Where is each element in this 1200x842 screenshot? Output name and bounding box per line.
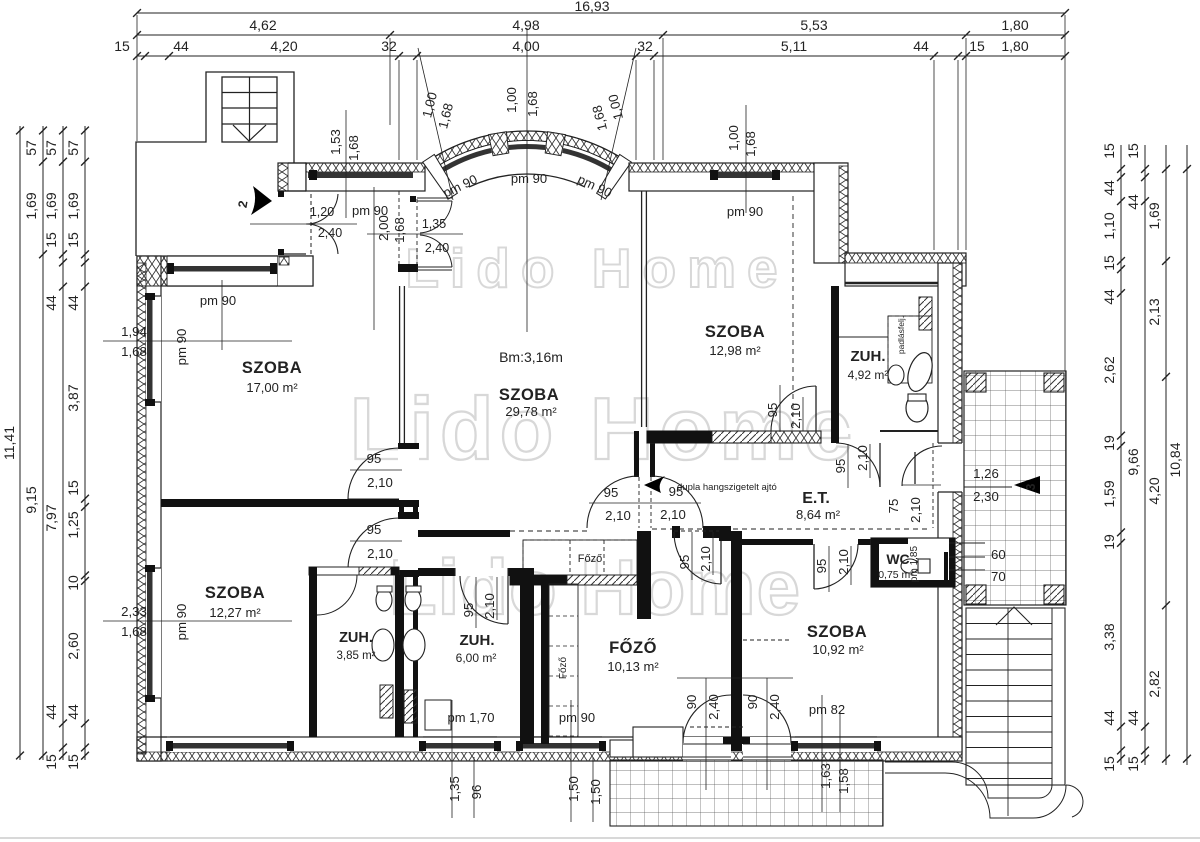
svg-text:9,66: 9,66 bbox=[1125, 448, 1141, 475]
window glazing NW (pm 90) bbox=[167, 256, 277, 286]
svg-text:70: 70 bbox=[991, 569, 1006, 584]
svg-text:15: 15 bbox=[969, 38, 985, 54]
arc bay glazing segments bbox=[439, 150, 491, 172]
svg-text:2,10: 2,10 bbox=[836, 549, 851, 575]
svg-text:15: 15 bbox=[1101, 756, 1117, 772]
svg-text:2,10: 2,10 bbox=[660, 507, 686, 522]
wall segment above double door bbox=[634, 431, 639, 477]
svg-text:2,10: 2,10 bbox=[482, 593, 497, 619]
arc radial dim lines bbox=[526, 28, 528, 332]
south window SZOBA 12,27 pm 90 bbox=[170, 737, 290, 752]
east wall terrace door opening bbox=[937, 443, 963, 492]
right dimension chain 3 bbox=[1165, 145, 1167, 765]
terrace steps by WC bbox=[949, 542, 985, 544]
svg-text:1,00: 1,00 bbox=[726, 125, 741, 151]
NW corner hatch block bbox=[137, 256, 167, 286]
svg-text:32: 32 bbox=[637, 38, 653, 54]
ZUH 3,85 fixtures bbox=[376, 589, 392, 611]
svg-text:11,41: 11,41 bbox=[1, 426, 17, 460]
wall: top band segment B with window pm 90 bbox=[629, 163, 847, 191]
svg-text:2,00: 2,00 bbox=[376, 215, 391, 241]
svg-text:29,78 m²: 29,78 m² bbox=[505, 404, 557, 419]
bottom dim FOZO window 1,50 / 1,50 bbox=[570, 700, 572, 822]
svg-text:pm 90: pm 90 bbox=[511, 171, 547, 186]
svg-text:2,10: 2,10 bbox=[908, 497, 923, 523]
dashed line SZOBA 12,98 bbox=[792, 196, 794, 428]
svg-text:1,80: 1,80 bbox=[1001, 17, 1028, 33]
svg-text:1,25: 1,25 bbox=[65, 511, 81, 538]
svg-text:1,69: 1,69 bbox=[1146, 202, 1162, 229]
double soundproof door (dupla hangszigetelt ajto) bbox=[587, 476, 639, 528]
svg-text:Lido Home: Lido Home bbox=[405, 237, 788, 299]
left dimension chain C bbox=[62, 126, 64, 760]
svg-text:ZUH.: ZUH. bbox=[851, 348, 886, 365]
wall: porch east wall / entry bbox=[278, 163, 306, 191]
svg-text:1,94: 1,94 bbox=[121, 324, 147, 339]
wall: partition SZOBA29 east (thin) bbox=[641, 191, 643, 427]
svg-text:2,62: 2,62 bbox=[1101, 356, 1117, 383]
svg-text:1,59: 1,59 bbox=[1101, 480, 1117, 507]
svg-text:2,10: 2,10 bbox=[855, 445, 870, 471]
svg-text:19: 19 bbox=[1101, 534, 1117, 550]
svg-text:44: 44 bbox=[913, 38, 929, 54]
svg-text:pm 90: pm 90 bbox=[174, 329, 189, 366]
svg-text:95: 95 bbox=[604, 485, 619, 500]
wall: ZUH3,85 west wall bbox=[309, 575, 317, 737]
svg-text:96: 96 bbox=[469, 785, 484, 800]
section arrow 3 bbox=[1014, 476, 1040, 494]
south door arcs (90/2,40) bbox=[683, 695, 731, 743]
svg-text:1,00: 1,00 bbox=[504, 87, 519, 113]
svg-text:dupla hangszigetelt ajtó: dupla hangszigetelt ajtó bbox=[677, 482, 777, 493]
svg-text:15: 15 bbox=[43, 232, 59, 248]
svg-text:95: 95 bbox=[677, 555, 692, 570]
wall: divider SZOBA17 / SZOBA12,27 bbox=[161, 499, 399, 507]
svg-text:9,15: 9,15 bbox=[23, 486, 39, 513]
svg-text:ZUH.: ZUH. bbox=[339, 630, 373, 646]
svg-text:2,40: 2,40 bbox=[706, 694, 721, 720]
door E.T. to SZOBA 12,98 bbox=[771, 386, 816, 431]
terrace corner blocks bbox=[966, 373, 986, 392]
svg-text:1,69: 1,69 bbox=[65, 192, 81, 219]
svg-text:44: 44 bbox=[1125, 710, 1141, 726]
svg-text:2,33: 2,33 bbox=[121, 604, 147, 619]
window glazing segment B bbox=[717, 172, 773, 178]
svg-text:2,10: 2,10 bbox=[367, 546, 393, 561]
south double glass doors openings bbox=[683, 737, 731, 761]
left dimension chain B bbox=[42, 126, 44, 760]
svg-text:5,11: 5,11 bbox=[781, 38, 807, 54]
svg-text:57: 57 bbox=[23, 140, 39, 156]
south terrace with tiles bbox=[610, 760, 883, 826]
ZUH 4,92 radiator bbox=[919, 297, 932, 330]
svg-text:2,30: 2,30 bbox=[973, 489, 999, 504]
svg-text:1,10: 1,10 bbox=[1101, 212, 1117, 239]
doorway SZOBA29 NW (1,35) double door bbox=[398, 191, 400, 268]
svg-text:95: 95 bbox=[367, 522, 382, 537]
entry door dim 1,20/2,40 bbox=[250, 223, 357, 225]
wall: ZUH3,85 / ZUH6 divider bbox=[395, 575, 403, 737]
svg-text:57: 57 bbox=[65, 140, 81, 156]
svg-text:1,80: 1,80 bbox=[1001, 38, 1028, 54]
west window 1 dim 1,94/1,68 bbox=[103, 340, 292, 342]
svg-text:1,68: 1,68 bbox=[121, 624, 147, 639]
svg-text:pm 90: pm 90 bbox=[200, 293, 236, 308]
E.T. dashed boundary bbox=[652, 528, 931, 530]
svg-text:1,63: 1,63 bbox=[818, 763, 833, 789]
svg-text:3,85 m²: 3,85 m² bbox=[337, 650, 376, 662]
wall: SZOBA 12,98 south band with hatch bbox=[647, 431, 821, 443]
svg-text:2,10: 2,10 bbox=[367, 475, 393, 490]
wall: top band segment A with window bbox=[306, 163, 425, 191]
ZUH 6,00 fixtures bbox=[405, 589, 421, 611]
svg-text:pm 90: pm 90 bbox=[559, 710, 595, 725]
FOZO cabinet dashed strip bbox=[549, 584, 578, 737]
door to SZOBA 17 bbox=[398, 448, 419, 500]
south-east exterior staircase bbox=[966, 608, 1065, 785]
ZUH 4,92 sink bbox=[888, 365, 904, 385]
Fozo nook dashed cabinets bbox=[523, 540, 637, 575]
svg-text:1,50: 1,50 bbox=[566, 776, 581, 802]
porch outline bbox=[136, 72, 294, 256]
svg-text:57: 57 bbox=[43, 140, 59, 156]
right dimension chain 1 bbox=[1120, 145, 1122, 765]
svg-text:1,68: 1,68 bbox=[392, 217, 407, 243]
svg-text:1,68: 1,68 bbox=[525, 91, 540, 117]
corridor to terrace dashed + door 75 bbox=[932, 443, 934, 528]
south window SZOBA 10,92 pm 82 bbox=[795, 737, 877, 752]
svg-text:44: 44 bbox=[43, 704, 59, 720]
right dimension chain 2 bbox=[1144, 145, 1146, 765]
svg-text:95: 95 bbox=[765, 403, 780, 418]
stair up arrow bbox=[996, 607, 1032, 625]
wall: FOZO west wall bbox=[541, 584, 549, 744]
left dimension chain A total 11,41 bbox=[19, 126, 21, 760]
wall: west outer wall bbox=[137, 256, 161, 761]
wall: east upper vertical (x814-848) bbox=[814, 163, 848, 263]
svg-text:5,53: 5,53 bbox=[800, 17, 827, 33]
bottom dim SZOBA10,92 window 1,63 / 1,58 bbox=[821, 695, 823, 812]
svg-text:4,20: 4,20 bbox=[1146, 477, 1162, 504]
wall: E.T. SE corner piece bbox=[719, 526, 731, 541]
entry double door leaves bbox=[310, 194, 312, 254]
right terrace with tiles bbox=[964, 371, 1066, 605]
ZUH 4,92 shower dashed enclosure and tub bbox=[888, 316, 932, 383]
svg-text:1,69: 1,69 bbox=[43, 192, 59, 219]
svg-text:E.T.: E.T. bbox=[802, 490, 830, 507]
svg-text:1,69: 1,69 bbox=[23, 192, 39, 219]
svg-text:44: 44 bbox=[1101, 180, 1117, 196]
washing machine ZUH6 bbox=[425, 700, 451, 730]
door to SZOBA 12,27 bbox=[398, 518, 419, 570]
arc bay wall with three windows bbox=[424, 131, 629, 187]
arc bay mullions bbox=[489, 132, 509, 156]
svg-text:17,00 m²: 17,00 m² bbox=[246, 380, 298, 395]
radiator by WC bbox=[944, 552, 948, 582]
svg-text:60: 60 bbox=[991, 547, 1006, 562]
svg-text:44: 44 bbox=[65, 295, 81, 311]
south window ZUH 6,00 pm 1,70 bbox=[423, 737, 497, 752]
svg-text:44: 44 bbox=[1125, 194, 1141, 210]
svg-text:1,35: 1,35 bbox=[447, 776, 462, 802]
svg-text:10,84: 10,84 bbox=[1167, 442, 1183, 477]
wall: E.T. south / double door wall bbox=[418, 530, 510, 537]
window glazing segment A bbox=[308, 172, 413, 178]
wall: ZUH west wall bbox=[831, 286, 839, 443]
wall: north-east band bbox=[845, 253, 966, 286]
svg-text:2,40: 2,40 bbox=[425, 241, 449, 255]
wall: ZUH3,85 north wall bbox=[309, 567, 399, 575]
svg-text:SZOBA: SZOBA bbox=[242, 359, 302, 377]
svg-text:95: 95 bbox=[367, 451, 382, 466]
svg-text:15: 15 bbox=[1101, 255, 1117, 271]
svg-text:1,68: 1,68 bbox=[346, 135, 361, 161]
wall: south band bbox=[137, 737, 962, 761]
door labels 95 / 2,10 left doors bbox=[350, 469, 402, 471]
svg-text:44: 44 bbox=[173, 38, 189, 54]
svg-text:pm 90: pm 90 bbox=[727, 204, 763, 219]
svg-text:1,35: 1,35 bbox=[422, 217, 446, 231]
svg-text:SZOBA: SZOBA bbox=[499, 386, 559, 404]
wall: north-west band (SZOBA 17 top) with window pm 90 bbox=[137, 256, 313, 286]
svg-text:3: 3 bbox=[1024, 483, 1038, 490]
svg-text:15: 15 bbox=[65, 480, 81, 496]
wall under Fozo nook bbox=[510, 575, 637, 585]
svg-text:2,40: 2,40 bbox=[318, 226, 342, 240]
svg-text:12,27 m²: 12,27 m² bbox=[209, 605, 261, 620]
svg-text:4,98: 4,98 bbox=[512, 17, 539, 33]
SW corner hatch block bbox=[137, 752, 167, 761]
svg-text:15: 15 bbox=[65, 232, 81, 248]
svg-text:padlásfelj.: padlásfelj. bbox=[896, 316, 906, 354]
svg-text:15: 15 bbox=[1101, 143, 1117, 159]
west window SZOBA 12,27 (2,33) bbox=[146, 568, 161, 698]
svg-text:pm 90: pm 90 bbox=[174, 604, 189, 641]
svg-text:44: 44 bbox=[1101, 289, 1117, 305]
svg-text:2,40: 2,40 bbox=[767, 694, 782, 720]
svg-text:15: 15 bbox=[1125, 756, 1141, 772]
svg-text:Főző: Főző bbox=[578, 553, 602, 565]
svg-text:8,64 m²: 8,64 m² bbox=[796, 507, 841, 522]
svg-text:1,68: 1,68 bbox=[121, 344, 147, 359]
svg-text:1,53: 1,53 bbox=[328, 129, 343, 155]
svg-text:15: 15 bbox=[1125, 143, 1141, 159]
svg-text:15: 15 bbox=[65, 754, 81, 770]
svg-text:1,26: 1,26 bbox=[973, 466, 999, 481]
svg-text:ZUH.: ZUH. bbox=[460, 632, 495, 649]
wall: east outer wall bbox=[938, 263, 962, 753]
terrace door dim 1,26 / 2,30 bbox=[964, 486, 1012, 488]
stair center line bbox=[1007, 608, 1009, 816]
door E.T. to FOZO bbox=[674, 530, 719, 532]
arc bay end blocks bbox=[423, 155, 458, 199]
svg-text:19: 19 bbox=[1101, 435, 1117, 451]
svg-text:FŐZŐ: FŐZŐ bbox=[609, 638, 657, 657]
wall: FOZO / SZOBA 10,92 divider bbox=[731, 531, 742, 751]
svg-text:1,68: 1,68 bbox=[743, 131, 758, 157]
ZUH 4,92 partition line bbox=[839, 336, 888, 338]
wall: SZOBA10,92 north bbox=[742, 539, 813, 545]
extension lines from top chains bbox=[136, 15, 138, 141]
svg-text:pm 82: pm 82 bbox=[809, 702, 845, 717]
svg-text:pm 1,70: pm 1,70 bbox=[448, 710, 495, 725]
segment B window dim 1,00/1,68 + pm 90 bbox=[745, 105, 747, 213]
svg-text:4,62: 4,62 bbox=[249, 17, 276, 33]
svg-text:12,98 m²: 12,98 m² bbox=[709, 343, 761, 358]
west window SZOBA 17 (1,94) bbox=[146, 296, 161, 402]
svg-text:2,82: 2,82 bbox=[1146, 670, 1162, 697]
dimension chain top row 1 total 16,93 bbox=[137, 12, 1065, 14]
svg-text:16,93: 16,93 bbox=[574, 0, 609, 14]
svg-text:3,38: 3,38 bbox=[1101, 623, 1117, 650]
svg-text:7,97: 7,97 bbox=[43, 504, 59, 531]
svg-text:44: 44 bbox=[43, 295, 59, 311]
NW window label pm 90 bbox=[221, 280, 223, 350]
svg-text:4,20: 4,20 bbox=[270, 38, 297, 54]
WC fixture bbox=[901, 559, 919, 573]
svg-text:Bm:3,16m: Bm:3,16m bbox=[499, 349, 563, 365]
south window FOZO pm 90 bbox=[520, 737, 602, 752]
south door post feet bbox=[723, 737, 731, 744]
svg-text:95: 95 bbox=[461, 603, 476, 618]
svg-text:4,92 m²: 4,92 m² bbox=[848, 368, 889, 382]
svg-text:Főző: Főző bbox=[558, 656, 569, 679]
ZUH 4,92 toilet bbox=[906, 394, 928, 422]
dimension chain top row 2 bbox=[137, 34, 1065, 36]
threshold steps by south doors bbox=[633, 727, 683, 757]
left dimension chain D bbox=[84, 126, 86, 760]
svg-text:10,13 m²: 10,13 m² bbox=[607, 659, 659, 674]
svg-text:44: 44 bbox=[65, 704, 81, 720]
arc bay outer hatched band bbox=[424, 131, 629, 168]
svg-text:2,10: 2,10 bbox=[698, 546, 713, 572]
svg-text:3,87: 3,87 bbox=[65, 384, 81, 411]
svg-text:1,58: 1,58 bbox=[836, 768, 851, 794]
svg-text:10,92 m²: 10,92 m² bbox=[812, 642, 864, 657]
porch dim line pm 90 bbox=[373, 187, 375, 330]
door E.T. to SZOBA10,92 bbox=[813, 544, 815, 589]
stair bottom curved walkway rails bbox=[885, 762, 1052, 798]
svg-text:10: 10 bbox=[65, 575, 81, 591]
svg-text:2,10: 2,10 bbox=[788, 403, 803, 429]
wall: partition SZOBA29 west upper (thin) bbox=[399, 286, 401, 443]
svg-text:4,00: 4,00 bbox=[512, 38, 539, 54]
svg-text:SZOBA: SZOBA bbox=[205, 584, 265, 602]
right dimension chain 4 bbox=[1186, 145, 1188, 765]
wall: partition double-bar SZOBA29 west lower with 2 doors bbox=[399, 443, 404, 737]
wall: ZUH6 east wall bbox=[520, 568, 534, 744]
svg-text:44: 44 bbox=[1101, 710, 1117, 726]
WC box bbox=[871, 538, 955, 587]
svg-text:2,60: 2,60 bbox=[65, 632, 81, 659]
svg-text:pm 1,85: pm 1,85 bbox=[909, 545, 920, 582]
svg-text:1,50: 1,50 bbox=[588, 779, 603, 805]
wall: ZUH 4,92 south thin + door bbox=[832, 430, 938, 432]
svg-text:95: 95 bbox=[814, 559, 829, 574]
entry stairs top-left bbox=[222, 77, 277, 142]
west window 2 dim 2,33/1,68 bbox=[103, 620, 292, 622]
page bottom border line bbox=[0, 837, 1200, 839]
svg-text:6,00 m²: 6,00 m² bbox=[456, 651, 497, 665]
svg-text:SZOBA: SZOBA bbox=[807, 623, 867, 641]
svg-text:2,13: 2,13 bbox=[1146, 298, 1162, 325]
svg-text:WC: WC bbox=[886, 551, 909, 567]
svg-text:95: 95 bbox=[833, 459, 848, 474]
ZUH3,85 door arc bbox=[317, 575, 357, 615]
dimension chain top row 3 bbox=[137, 55, 1065, 57]
svg-text:90: 90 bbox=[745, 695, 760, 710]
arc bay inner face arc bbox=[469, 174, 585, 187]
NW nook door dim 1,35/2,40 + rotated 2,00/1,68 bbox=[367, 233, 463, 235]
svg-text:15: 15 bbox=[43, 754, 59, 770]
wall: ZUH6 north wall with door bbox=[418, 568, 523, 576]
svg-text:1,20: 1,20 bbox=[310, 205, 334, 219]
svg-text:SZOBA: SZOBA bbox=[705, 323, 765, 341]
dashed parapet line SZOBA 10,92 bbox=[743, 639, 791, 641]
svg-text:15: 15 bbox=[114, 38, 130, 54]
svg-text:2,10: 2,10 bbox=[605, 508, 631, 523]
section arrow 2 bbox=[251, 186, 272, 215]
segment A window dim 1,53/1,68 + pm 90 bbox=[345, 110, 347, 218]
svg-text:Lido Home: Lido Home bbox=[350, 379, 859, 478]
wall: corridor center post bbox=[637, 531, 651, 619]
svg-text:90: 90 bbox=[684, 695, 699, 710]
svg-text:32: 32 bbox=[381, 38, 397, 54]
bottom dim ZUH6 window 1,35 / 96 bbox=[451, 700, 453, 818]
svg-text:75: 75 bbox=[886, 499, 901, 514]
